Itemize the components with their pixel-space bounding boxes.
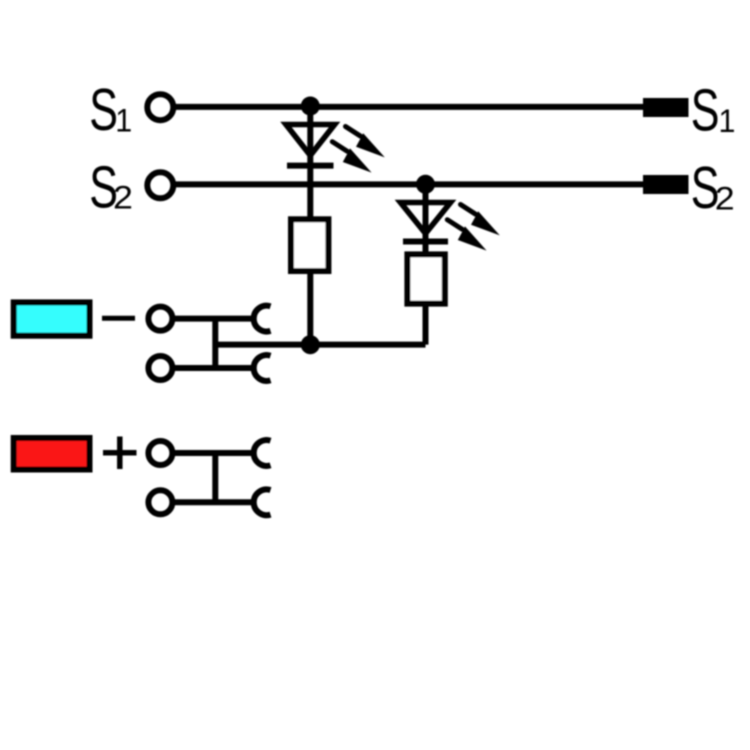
svg-text:S: S: [89, 76, 118, 142]
wire S1 horizontal: [173, 104, 644, 110]
LED D1 triangle: [286, 125, 335, 156]
wire LED2 vertical branch: [423, 184, 429, 254]
LED D2 cathode bar: [403, 239, 448, 245]
terminal circle S2 left: [147, 172, 173, 198]
clamp contact plus lower: [254, 489, 271, 515]
svg-text:S: S: [691, 77, 720, 143]
marker plus (red): [14, 438, 90, 470]
wire minus upper: [172, 316, 254, 322]
wire LED1 vertical branch: [307, 107, 313, 345]
minus sign: [102, 316, 135, 321]
junction node on S2 wire: [416, 175, 435, 194]
terminal circle plus lower: [148, 490, 172, 514]
wire plus upper: [172, 450, 254, 456]
LED D1 cathode bar: [287, 163, 334, 169]
terminal circle minus lower: [148, 356, 172, 380]
junction node bottom: [301, 335, 320, 354]
resistor R2: [407, 254, 444, 303]
terminal circle plus upper: [148, 441, 172, 465]
wire plus vertical link: [212, 453, 218, 502]
label S1 right: [691, 77, 736, 143]
wire plus lower: [172, 499, 254, 505]
svg-text:1: 1: [719, 103, 736, 139]
resistor R1: [291, 219, 328, 271]
clamp contact plus upper: [254, 440, 271, 466]
label S1 left: [89, 76, 132, 142]
LED D2 light arrow 2: [447, 220, 486, 251]
label S2 left: [89, 154, 133, 220]
wire minus vertical link: [212, 319, 218, 368]
label S2 right: [691, 154, 735, 220]
svg-text:2: 2: [715, 181, 735, 217]
svg-text:2: 2: [113, 180, 133, 216]
terminal pad S2 right: [643, 175, 689, 194]
LED D2 light arrow 1: [461, 205, 500, 236]
LED D1 light arrow 2: [332, 142, 371, 173]
clamp contact minus upper: [254, 306, 271, 332]
marker minus (cyan): [14, 302, 90, 335]
svg-text:1: 1: [115, 103, 132, 139]
plus sign: [103, 437, 137, 470]
terminal circle S1 left: [147, 94, 173, 120]
wire riser to R2: [423, 254, 429, 344]
terminal pad S1 right: [643, 98, 689, 117]
wire S2 horizontal: [173, 181, 644, 187]
wire common bottom horizontal: [215, 342, 425, 348]
wire minus lower: [172, 365, 254, 371]
LED D2 triangle: [401, 203, 451, 234]
terminal circle minus upper: [148, 307, 172, 331]
clamp contact minus lower: [254, 355, 271, 381]
junction node on S1 wire: [301, 97, 320, 116]
LED D1 light arrow 1: [346, 127, 385, 158]
